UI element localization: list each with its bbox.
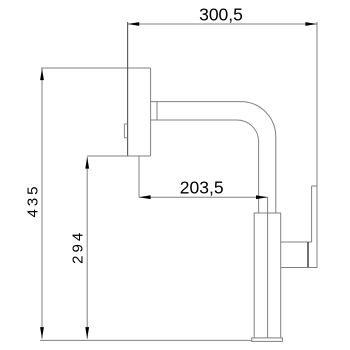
body right edge	[280, 213, 282, 338]
arrowhead 203,5 right	[256, 195, 268, 199]
arrowhead 300,5 right	[305, 22, 317, 26]
handle socket bottom edge	[281, 267, 317, 269]
spray head button	[124, 124, 127, 138]
spout arm bottom edge with inner elbow and downtube left edge	[151, 120, 259, 213]
base plate	[252, 338, 283, 342]
svg-text:435: 435	[24, 183, 41, 217]
handle right edge with extension line to top dimension	[316, 22, 318, 268]
extension line body axis	[267, 197, 269, 338]
handle socket right edge	[307, 242, 309, 268]
handle left edge	[311, 186, 313, 242]
body left edge	[253, 213, 255, 338]
dimension line 300,5	[128, 23, 317, 25]
dimension line 203,5	[139, 196, 268, 198]
handle top edge	[312, 185, 317, 187]
dimension line 294	[86, 157, 88, 339]
svg-text:203,5: 203,5	[180, 178, 224, 198]
arrowhead 294 top	[85, 157, 89, 169]
arrowhead 435 top	[40, 69, 44, 81]
spout collar	[156, 102, 158, 120]
spray head top edge with extension line	[41, 67, 151, 69]
svg-text:294: 294	[69, 230, 86, 264]
spout arm top edge with outer elbow and downtube right edge	[151, 102, 276, 213]
arrowhead 435 bottom	[40, 327, 44, 339]
arrowhead 300,5 left	[128, 22, 140, 26]
dimension line 435	[41, 69, 43, 339]
spray head bottom edge with extension line	[87, 155, 151, 157]
svg-text:300,5: 300,5	[199, 4, 243, 24]
extension line from spout axis	[138, 156, 140, 197]
spray head right edge	[150, 68, 152, 156]
handle socket top edge	[281, 241, 312, 243]
arrowhead 203,5 left	[139, 195, 151, 199]
spray head left edge with extension line to top dimension	[127, 22, 129, 156]
baseline counter line	[40, 339, 252, 341]
arrowhead 294 bottom	[85, 327, 89, 339]
body shoulder	[254, 212, 281, 214]
